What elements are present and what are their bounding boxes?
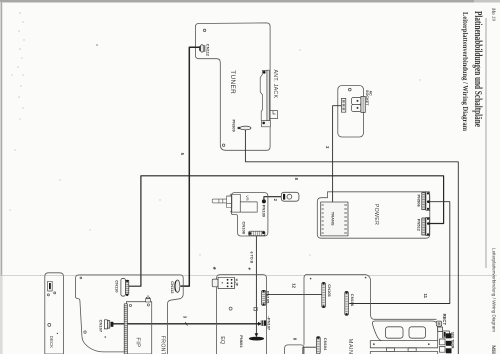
svg-text:CN112: CN112 — [170, 281, 175, 294]
tuner hole bottom — [222, 144, 224, 146]
svg-text:PN105: PN105 — [266, 291, 271, 304]
connector PN109 dot — [262, 199, 266, 203]
svg-text:EQ: EQ — [219, 336, 225, 345]
svg-text:PN309: PN309 — [231, 120, 236, 133]
svg-text:Mn 19: Mn 19 — [490, 7, 495, 21]
svg-text:MHC: MHC — [490, 345, 495, 354]
svg-text:FIP: FIP — [134, 337, 140, 347]
wire PN105 to CN105 (12) — [266, 294, 322, 296]
deck hole 2 — [54, 292, 56, 294]
svg-text:Platinenabbildungen und Schalt: Platinenabbildungen und Schaltpläne — [472, 11, 483, 127]
svg-text:CN106: CN106 — [350, 294, 355, 307]
svg-text:PN506: PN506 — [417, 195, 422, 208]
FIP display outline — [126, 302, 151, 354]
junction dot PN512 wire — [427, 222, 430, 225]
connector CN104 — [316, 337, 320, 354]
connector PN506 — [422, 192, 430, 210]
registration speck 2 — [248, 267, 251, 270]
wire PN109 to bracket (2) — [264, 197, 283, 201]
connector CN110 — [121, 278, 129, 296]
connector PN604 — [249, 337, 264, 341]
arrowhead at PN604 — [255, 333, 259, 337]
connector CN106 — [345, 291, 349, 315]
svg-text:12: 12 — [292, 283, 297, 288]
power amp terminal block on MAIN — [370, 321, 437, 354]
headphone jack H.JP — [212, 277, 234, 288]
page left edge band — [0, 2, 3, 354]
EQ hole — [229, 307, 232, 310]
connector PN105 — [262, 290, 266, 305]
svg-text:6 TO B: 6 TO B — [250, 252, 254, 264]
wire PN309 to PN512 and down right edge — [245, 130, 458, 354]
board EQ outline — [220, 275, 266, 354]
scan noise specks — [9, 12, 420, 256]
junction tick on CN107 wire — [185, 322, 187, 326]
wire AC socket to TRANS (3) — [333, 106, 342, 202]
front dot — [105, 336, 107, 338]
main dot 2 — [365, 277, 367, 279]
svg-text:Leiterplattenverbindung / Wiri: Leiterplattenverbindung / Wiring Diagram — [491, 248, 496, 333]
svg-text:TUNER: TUNER — [229, 70, 236, 94]
connector CN112 (front) — [175, 280, 180, 292]
svg-text:Leiterplattenverbindung / Wiri: Leiterplattenverbindung / Wiring Diagram — [461, 12, 469, 131]
svg-text:CN112: CN112 — [205, 44, 210, 57]
right header rule — [485, 18, 487, 268]
FIP pin strip — [124, 304, 127, 354]
board MAIN outline — [285, 345, 304, 354]
deck hole 3 — [48, 323, 51, 326]
svg-text:PN604: PN604 — [239, 335, 244, 348]
wire CN107 to PN107 (3) — [113, 323, 261, 325]
page top edge band — [0, 0, 500, 3]
svg-text:8: 8 — [292, 338, 297, 341]
volume pot VR body — [212, 194, 257, 212]
connector PN309 — [238, 126, 251, 130]
board VR outline — [231, 193, 268, 236]
svg-text:POWER: POWER — [373, 204, 379, 225]
svg-text:SPK TERM: SPK TERM — [451, 332, 455, 349]
registration speck 1 — [213, 267, 216, 270]
speaker terminals SPK TERM — [438, 327, 452, 353]
svg-text:ANT. JACK: ANT. JACK — [272, 70, 278, 99]
wire CN104 down — [303, 347, 316, 354]
small connector on FIP top — [146, 295, 151, 302]
deck switch component — [48, 281, 53, 291]
FIP hole left — [129, 304, 131, 306]
svg-text:PN512: PN512 — [417, 219, 422, 232]
connector CN105 — [322, 282, 326, 308]
svg-text:CN105: CN105 — [327, 284, 332, 297]
junction dot PN506 wire — [427, 200, 430, 203]
svg-text:CN108: CN108 — [241, 222, 246, 235]
svg-text:SOCKET: SOCKET — [365, 90, 369, 106]
connector CN112 (tuner) — [199, 45, 205, 53]
svg-text:2: 2 — [273, 199, 278, 202]
wire PN506 to CN106 (11) — [349, 202, 450, 304]
FIP hole right — [147, 304, 149, 306]
connector CN108 — [249, 231, 265, 236]
wire TUNER CN112 to FRONT CN112 (5) — [181, 47, 200, 286]
svg-text:5: 5 — [180, 153, 185, 156]
svg-text:MAIN: MAIN — [347, 339, 353, 354]
AC socket component — [352, 96, 366, 112]
bracket with hole (PN109 mate) — [281, 192, 299, 201]
board AC SOCKET outline — [338, 86, 364, 138]
board FRONT outline — [79, 275, 183, 354]
svg-text:8: 8 — [294, 178, 299, 181]
antenna jack ANT. JACK — [260, 70, 277, 127]
connector PN512 — [422, 217, 430, 235]
svg-text:3: 3 — [182, 316, 187, 319]
page left edge line — [0, 2, 2, 276]
svg-text:CN104: CN104 — [323, 338, 328, 351]
deck hole 1 — [47, 294, 49, 296]
connector on AC board — [341, 98, 345, 112]
wire CN110 to PN512 (8) — [129, 176, 444, 286]
faint page-fold horizontal line — [0, 275, 497, 277]
svg-text:TRANS: TRANS — [331, 212, 336, 226]
EQ pad square — [254, 307, 257, 310]
wire VR CN108 to PN604 (6 TO B) — [255, 236, 257, 334]
svg-text:CN107: CN107 — [99, 320, 104, 333]
main dot 1 — [310, 278, 312, 280]
svg-text:–PN107: –PN107 — [267, 316, 272, 331]
svg-text:FRONT: FRONT — [160, 336, 166, 354]
transformer TRANS block — [321, 202, 348, 236]
rectifier RECT box — [436, 321, 441, 326]
connector PN107 — [261, 320, 266, 325]
front hole top — [80, 277, 82, 279]
deck dot — [57, 333, 58, 334]
front hole mid — [84, 331, 86, 333]
tuner hole top — [203, 29, 205, 31]
svg-text:RECT: RECT — [442, 314, 447, 326]
connector CN107 — [104, 320, 113, 329]
svg-text:PN109: PN109 — [261, 205, 266, 218]
svg-text:3: 3 — [325, 146, 330, 149]
arrowhead at PN107 — [258, 322, 262, 326]
svg-text:DECK: DECK — [49, 336, 54, 348]
svg-text:CN110: CN110 — [115, 280, 120, 293]
svg-text:VR: VR — [245, 195, 249, 201]
board TUNER outline — [195, 23, 270, 150]
svg-text:H.JP: H.JP — [234, 279, 238, 287]
board POWER outline — [317, 192, 430, 238]
svg-text:11: 11 — [423, 294, 428, 299]
board DECK outline — [45, 273, 64, 354]
